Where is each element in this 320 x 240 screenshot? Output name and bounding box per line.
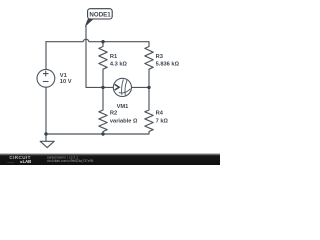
svg-text:10 V: 10 V — [60, 79, 72, 85]
svg-text:R1: R1 — [110, 54, 117, 60]
node dot R2 bottom — [101, 132, 104, 135]
voltmeter VM1 — [113, 78, 131, 96]
wire V1 top lead — [45, 42, 47, 70]
svg-text:▸LAB: ▸LAB — [20, 159, 32, 164]
labels — [60, 54, 180, 124]
svg-text:R3: R3 — [156, 54, 163, 60]
wire NODE1 stem down to VM1 left lead — [86, 26, 113, 87]
wire bottom rail — [46, 133, 149, 135]
svg-text:R4: R4 — [156, 111, 164, 117]
wire V1 bottom lead — [45, 88, 47, 134]
wire ground stub — [45, 134, 47, 141]
resistor R4 — [145, 87, 153, 134]
resistor R2 — [99, 87, 107, 134]
node dot V1/ground — [44, 132, 47, 135]
svg-text:variable Ω: variable Ω — [110, 118, 138, 124]
node dot R1/R2/VM1 junction — [101, 86, 104, 89]
svg-text:R2: R2 — [110, 111, 117, 117]
ground symbol — [40, 141, 54, 147]
svg-text:——: —— — [7, 160, 14, 164]
voltage source V1 — [37, 69, 55, 87]
svg-text:VM1: VM1 — [117, 104, 129, 110]
svg-text:7 kΩ: 7 kΩ — [156, 118, 169, 124]
wire VM1 right lead — [132, 86, 150, 88]
node dot R1 top — [101, 40, 104, 43]
node dot R3/R4/VM1 junction — [147, 86, 150, 89]
resistor R1 — [99, 42, 107, 88]
resistor R3 — [145, 42, 153, 88]
junction node dots — [44, 40, 150, 136]
wire top rail with crossover hop — [46, 39, 149, 41]
node label NODE1 flag — [85, 9, 112, 27]
svg-text:NODE1: NODE1 — [89, 12, 111, 19]
svg-text:4.3 kΩ: 4.3 kΩ — [110, 61, 128, 67]
svg-text:5.836 kΩ: 5.836 kΩ — [156, 61, 180, 67]
svg-text:circuitlab.com/c/9fe82kq737e95: circuitlab.com/c/9fe82kq737e95 — [47, 159, 94, 163]
